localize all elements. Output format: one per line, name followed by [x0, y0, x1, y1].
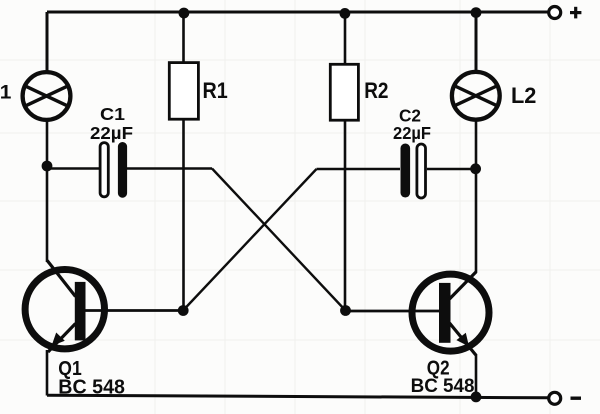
resistor R2: [330, 64, 358, 120]
wire top rail: [47, 11, 548, 14]
node L2 top: [471, 7, 482, 18]
wire diagonal C1 to Q2 base: [212, 169, 346, 311]
capacitor C1: [100, 142, 127, 198]
wire C2 right: [427, 168, 476, 171]
svg-text:22µF: 22µF: [90, 123, 133, 143]
svg-text:R2: R2: [364, 78, 388, 103]
svg-text:C1: C1: [100, 104, 125, 124]
wire bottom rail: [47, 395, 548, 398]
wire Q1 emitter to bottom rail: [46, 350, 49, 396]
wire left branch top (rail to L1): [46, 12, 49, 72]
svg-text:BC 548: BC 548: [58, 376, 125, 398]
svg-text:L2: L2: [511, 83, 536, 108]
resistor R1: [169, 63, 198, 120]
wire C2 left: [317, 168, 401, 171]
wire R2 bottom to Q2 base node: [344, 120, 347, 311]
terminal -: [549, 392, 581, 404]
wire diagonal C2 to Q1 base: [183, 169, 317, 311]
wire Q1 base: [85, 309, 184, 312]
lamp L2: [452, 72, 500, 120]
svg-text:22µF: 22µF: [393, 123, 431, 143]
wire L2 branch rail to lamp: [475, 12, 478, 71]
wire Q2 emitter to bottom rail: [475, 354, 478, 398]
wire C2 node to Q2 collector: [475, 169, 478, 272]
node L1/C1: [42, 161, 53, 172]
node Q2 emitter / rail: [471, 392, 482, 403]
wire C1 right: [127, 167, 212, 170]
transistor Q1: [25, 261, 104, 353]
transistor Q2: [412, 272, 489, 356]
svg-text:BC 548: BC 548: [411, 376, 475, 397]
svg-text:L1: L1: [0, 83, 12, 104]
node Q2 base: [340, 305, 351, 316]
capacitor C2: [401, 144, 426, 199]
wire L2 bottom to C2 node: [475, 121, 478, 169]
wire L1 bottom to Q1 collector: [46, 121, 49, 262]
node Q1 base: [178, 305, 189, 316]
terminal +: [549, 7, 582, 19]
node L2/C2: [470, 163, 481, 174]
wire Q2 base: [345, 310, 440, 313]
node R1 top: [179, 8, 190, 19]
wire R1 bottom to Q1 base node: [182, 119, 185, 311]
svg-text:R1: R1: [203, 78, 228, 103]
node R2 top: [340, 8, 351, 19]
wire C1 left: [47, 167, 100, 170]
wire R2 top: [344, 12, 347, 64]
wire R1 top: [182, 12, 185, 63]
lamp L1: [23, 72, 71, 120]
